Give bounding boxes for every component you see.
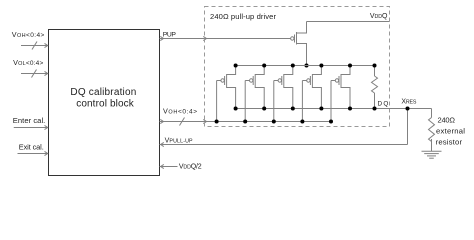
svg-text:Enter cal.: Enter cal. (13, 116, 46, 125)
svg-text:control block: control block (76, 99, 135, 110)
svg-text:XRES: XRES (401, 99, 416, 106)
svg-text:PUP: PUP (163, 32, 177, 39)
svg-text:240Ω pull-up driver: 240Ω pull-up driver (210, 12, 276, 21)
svg-text:VDDQ/2: VDDQ/2 (179, 163, 202, 170)
svg-text:VOH<0:4>: VOH<0:4> (12, 30, 45, 39)
svg-text:resistor: resistor (436, 137, 463, 146)
svg-text:DQ calibration: DQ calibration (70, 87, 136, 98)
svg-text:240Ω: 240Ω (438, 116, 456, 125)
svg-text:external: external (436, 126, 465, 135)
svg-text:Exit cal.: Exit cal. (19, 143, 44, 152)
svg-text:VOL<0:4>: VOL<0:4> (13, 58, 43, 67)
svg-text:DQ: DQ (378, 100, 389, 107)
svg-text:VDDQ: VDDQ (370, 13, 388, 20)
svg-text:VOH<0:4>: VOH<0:4> (163, 107, 197, 116)
svg-text:VPULL-UP: VPULL-UP (165, 138, 193, 145)
